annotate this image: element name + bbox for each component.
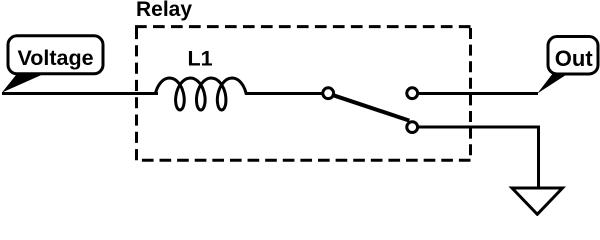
Voltage source callout box <box>8 36 103 74</box>
Out callout box <box>548 37 598 75</box>
relay enclosure dashed box <box>135 27 471 161</box>
svg-text:L1: L1 <box>188 47 213 71</box>
switch bottom throw terminal circle <box>407 122 418 133</box>
svg-text:Voltage: Voltage <box>18 46 94 70</box>
Voltage callout tail <box>2 73 47 93</box>
svg-text:Out: Out <box>555 46 594 71</box>
inductor L1 coil <box>150 78 252 110</box>
switch blade (SPDT arm) <box>334 95 410 120</box>
wire: inductor L1 to switch common terminal <box>245 92 325 95</box>
svg-text:Relay: Relay <box>136 0 192 21</box>
wire: switch bottom throw terminal to ground, horizontal then down <box>412 127 539 189</box>
ground symbol <box>512 188 563 214</box>
switch common terminal circle <box>323 88 334 99</box>
Out callout tail <box>537 73 569 94</box>
wire: Voltage input to inductor L1 <box>2 92 158 95</box>
wire: switch top throw terminal to Out node <box>412 92 538 95</box>
switch top throw terminal circle <box>407 88 418 99</box>
